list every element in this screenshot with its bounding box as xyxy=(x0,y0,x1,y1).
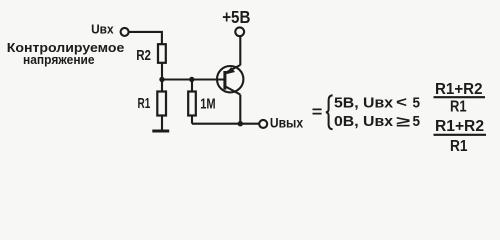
+5V terminal xyxy=(235,27,244,36)
transistor base bar xyxy=(223,71,226,90)
fraction bar 1 xyxy=(434,96,486,98)
resistor 1M xyxy=(188,92,196,116)
wire node B down to 1M xyxy=(191,80,193,91)
svg-text:5: 5 xyxy=(413,94,421,111)
svg-text:<: < xyxy=(396,94,407,111)
svg-text:R1+R2: R1+R2 xyxy=(435,118,484,135)
svg-text:≥: ≥ xyxy=(396,113,410,130)
svg-text:5: 5 xyxy=(413,113,421,130)
wire R1 bottom to ground xyxy=(161,116,163,130)
output terminal xyxy=(259,120,267,128)
svg-text:напряжение: напряжение xyxy=(23,52,95,67)
svg-text:R1: R1 xyxy=(450,99,467,116)
output rail wire xyxy=(192,123,259,125)
wire input terminal to R2 top xyxy=(129,32,162,44)
ground xyxy=(152,130,169,133)
node B junction dot xyxy=(189,77,194,82)
transistor emitter arrow xyxy=(226,67,235,74)
wire 1M bottom to output rail xyxy=(191,116,193,124)
fraction bar 2 xyxy=(434,134,487,136)
transistor Q1 body xyxy=(217,66,243,92)
svg-text:1М: 1М xyxy=(200,96,215,113)
svg-text:Uвых: Uвых xyxy=(270,114,303,130)
svg-text:R1: R1 xyxy=(138,95,151,112)
svg-text:+5В: +5В xyxy=(222,7,250,27)
wire collector down to output rail xyxy=(239,95,241,124)
wire node A down to R1 xyxy=(161,80,163,91)
brace xyxy=(326,95,333,129)
output rail junction dot xyxy=(238,121,243,126)
wire node A to base xyxy=(162,78,224,80)
svg-text:R2: R2 xyxy=(136,47,151,64)
input terminal xyxy=(121,28,129,36)
wire R2 bottom to node A xyxy=(161,64,163,80)
node A junction dot xyxy=(159,77,164,82)
svg-text:5В, Uвх: 5В, Uвх xyxy=(334,94,394,111)
svg-text:=: = xyxy=(312,104,323,121)
transistor collector diagonal xyxy=(226,87,241,95)
svg-text:0В, Uвх: 0В, Uвх xyxy=(334,113,394,130)
svg-text:R1+R2: R1+R2 xyxy=(435,81,483,98)
resistor R1 xyxy=(157,92,166,116)
resistor R2 xyxy=(158,44,166,63)
svg-text:R1: R1 xyxy=(450,138,468,155)
transistor emitter diagonal xyxy=(226,65,241,73)
wire emitter to +5V terminal xyxy=(239,36,241,65)
svg-text:Uвх: Uвх xyxy=(91,21,114,36)
